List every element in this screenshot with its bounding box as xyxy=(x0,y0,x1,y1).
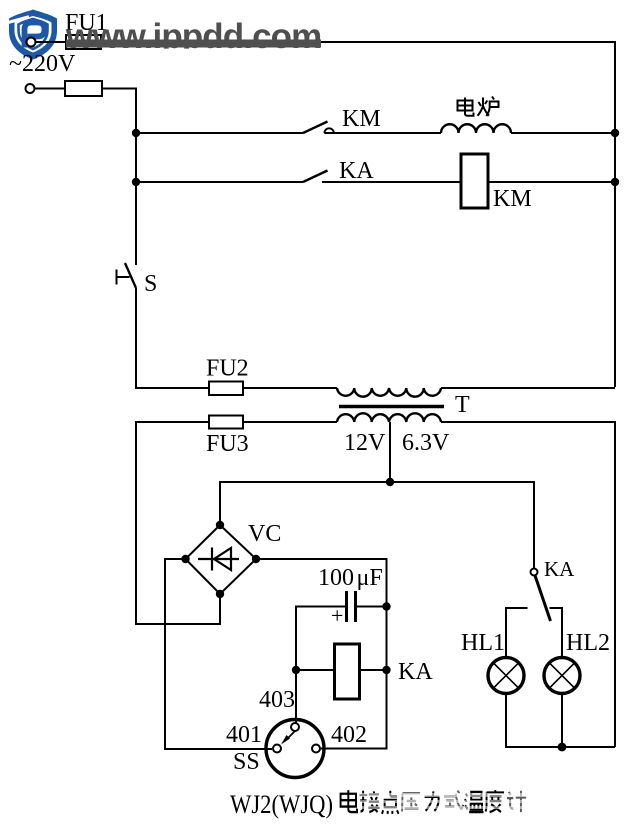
wire coil KA right xyxy=(360,669,387,671)
caption 式 xyxy=(444,791,463,809)
wire S to FU2 row xyxy=(136,288,209,388)
svg-text:KA: KA xyxy=(544,557,575,581)
terminal 401 xyxy=(273,745,281,753)
lamp HL1 xyxy=(488,658,524,694)
wire HL2 bottom xyxy=(561,694,563,748)
node bridge top xyxy=(216,521,224,529)
svg-text:KA: KA xyxy=(398,659,433,685)
wire top to right xyxy=(101,41,616,43)
svg-text:HL2: HL2 xyxy=(566,630,610,656)
wire lamp rail right xyxy=(550,608,563,658)
node center tap xyxy=(386,478,394,486)
node row1 left xyxy=(132,129,140,137)
wire row1 right xyxy=(511,132,615,134)
transformer T core xyxy=(339,405,444,408)
wire L2 to left vertical xyxy=(102,89,136,266)
caption 压 xyxy=(402,793,420,811)
terminal 402 xyxy=(312,745,320,753)
fuse FU1b xyxy=(65,81,102,96)
caption 计 xyxy=(507,791,526,812)
caption 温 xyxy=(465,792,484,812)
node row2 right xyxy=(611,178,619,186)
caption 点 xyxy=(382,791,398,814)
caption fade overlay xyxy=(357,789,529,815)
node bridge bottom xyxy=(216,590,224,598)
transformer T primary xyxy=(337,388,441,397)
switch KM blade xyxy=(303,122,328,134)
wire lamp rail left xyxy=(506,608,528,658)
inductor heater coil xyxy=(441,124,511,133)
capacitor C plates xyxy=(347,591,356,622)
wire HL1 bottom xyxy=(506,694,615,748)
svg-text:KM: KM xyxy=(342,106,381,132)
wire dc bus xyxy=(220,482,534,569)
node coil right xyxy=(382,666,390,674)
fuse FU1 xyxy=(66,35,101,49)
terminal 403 xyxy=(291,723,299,731)
site logo shield xyxy=(6,10,57,60)
wire row2 branch xyxy=(136,181,303,183)
svg-text:VC: VC xyxy=(248,521,281,547)
svg-text:12V: 12V xyxy=(344,430,386,456)
wire row2 right xyxy=(488,181,615,183)
node row1 right xyxy=(611,129,619,137)
switch KA blade xyxy=(303,171,328,183)
watermark www.ippdd.com xyxy=(65,17,321,56)
caption 力 xyxy=(425,791,440,811)
caption 度 xyxy=(486,790,505,812)
svg-text:S: S xyxy=(144,271,157,297)
caption 电 xyxy=(341,790,527,814)
svg-text:~220V: ~220V xyxy=(9,51,76,77)
fuse FU2 xyxy=(209,382,243,396)
wire row1 branch xyxy=(136,132,303,134)
node cap right xyxy=(382,602,390,610)
wire FU2 to transformer xyxy=(243,387,337,389)
svg-text:403: 403 xyxy=(259,687,295,713)
relay coil KM xyxy=(461,154,488,208)
wire FU3 left down to bridge bottom xyxy=(136,422,220,624)
node bridge right xyxy=(252,555,260,563)
svg-text:WJ2(WJQ): WJ2(WJQ) xyxy=(230,790,333,819)
wire row1 to inductor xyxy=(324,132,441,134)
label heater 电 xyxy=(458,97,499,117)
wire row2 mid xyxy=(322,181,461,183)
node row2 left xyxy=(132,178,140,186)
node coil left xyxy=(292,666,300,674)
wire bridge right vertex out xyxy=(256,559,387,749)
lamp HL2 xyxy=(544,658,580,694)
switch KA2 blade xyxy=(535,576,551,622)
wire bridge left vertex out xyxy=(165,559,272,749)
svg-text:6.3V: 6.3V xyxy=(402,430,450,456)
switch KM contact xyxy=(324,128,333,133)
capacitor right wire xyxy=(357,606,387,608)
transformer T secondary xyxy=(337,413,441,422)
relay coil KA xyxy=(335,644,360,699)
caption 接 xyxy=(360,791,380,812)
controller SS body xyxy=(266,720,324,778)
svg-text:HL1: HL1 xyxy=(461,630,505,656)
wire secondary left to FU3 xyxy=(243,421,337,423)
node bridge left xyxy=(181,555,189,563)
capacitor left wire xyxy=(296,607,345,724)
svg-text:FU2: FU2 xyxy=(206,356,249,382)
wire primary right xyxy=(441,387,615,389)
terminal circle L2 xyxy=(26,84,35,93)
label heater 炉 xyxy=(478,97,499,117)
svg-text:+: + xyxy=(331,603,343,628)
svg-text:KM: KM xyxy=(493,186,532,212)
bridge rectifier VC diamond xyxy=(186,525,257,594)
diode in bridge xyxy=(198,548,239,571)
svg-text:100μF: 100μF xyxy=(318,565,383,591)
node lamp bottom xyxy=(558,743,567,752)
wire L2 row xyxy=(34,88,65,90)
pointer arrow SS xyxy=(281,731,295,745)
wire top L1 xyxy=(35,41,66,43)
svg-text:402: 402 xyxy=(331,722,367,748)
switch S actuator xyxy=(117,270,130,285)
watermark strike bar xyxy=(66,40,321,48)
terminal circle L1 xyxy=(27,38,36,47)
switch S blade xyxy=(125,263,136,288)
svg-text:401: 401 xyxy=(226,722,262,748)
svg-text:T: T xyxy=(455,392,470,418)
svg-text:SS: SS xyxy=(233,749,260,775)
fuse FU3 xyxy=(209,416,243,429)
svg-text:FU3: FU3 xyxy=(206,431,249,457)
wire right vertical upper xyxy=(614,42,616,387)
wire secondary right xyxy=(441,422,615,747)
wire center tap xyxy=(389,422,391,482)
wire coil KA left xyxy=(296,669,335,671)
switch KA2 contact xyxy=(531,569,538,576)
svg-text:KA: KA xyxy=(339,158,374,184)
